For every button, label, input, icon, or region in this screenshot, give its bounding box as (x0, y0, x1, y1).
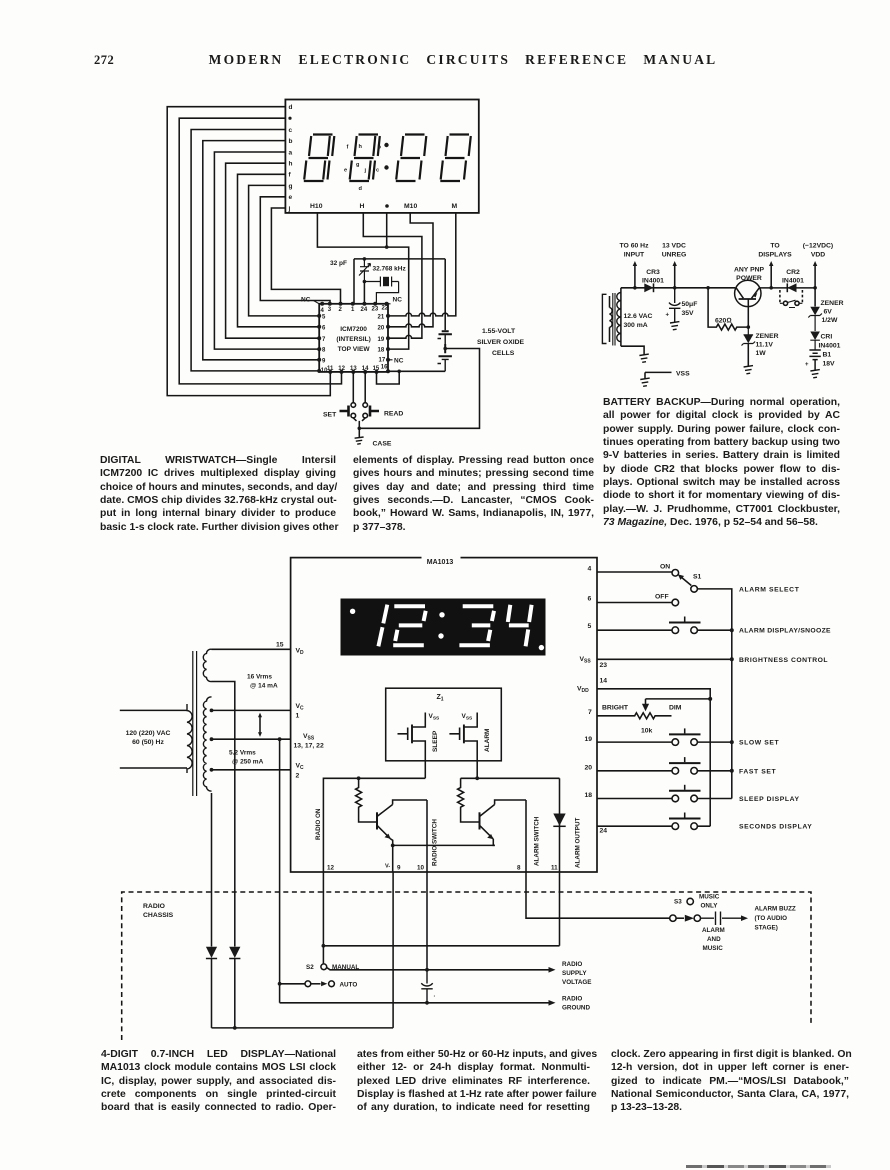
pin8 rail (525, 800, 527, 872)
svg-text:1: 1 (296, 713, 300, 720)
wire bus d (167, 107, 330, 396)
oscillator top rail to battery column (354, 259, 445, 330)
svg-text:7: 7 (588, 709, 592, 716)
svg-text:S3: S3 (674, 898, 682, 905)
trimmer capacitor 32 pF (359, 259, 371, 282)
MOSFET alarm (449, 713, 477, 761)
READ plunger (370, 406, 379, 417)
ground CASE (355, 437, 364, 444)
svg-text:NC: NC (301, 297, 311, 304)
svg-text:c: c (289, 127, 293, 134)
svg-text:11.1V: 11.1V (756, 342, 774, 349)
svg-text:b: b (289, 138, 293, 145)
transistor Q2 (480, 800, 527, 845)
page number (94, 53, 114, 68)
svg-text:DIM: DIM (669, 705, 682, 712)
TEXT BLOCK: digital wristwatch col 2 (353, 454, 594, 534)
pin 6 / off (597, 602, 672, 604)
wire battery mid to read loop (360, 349, 480, 429)
IC pin dots bottom (328, 370, 378, 374)
svg-text:@ 14 mA: @ 14 mA (250, 683, 278, 690)
svg-text:16 Vrms: 16 Vrms (247, 674, 272, 681)
colon (439, 612, 444, 617)
svg-text:DISPLAYS: DISPLAYS (758, 252, 792, 259)
svg-text:ON: ON (660, 564, 670, 571)
Z1 box (386, 688, 502, 761)
decimal dot on display bottom row (385, 204, 389, 208)
wire bus dot(.) (179, 118, 341, 384)
pin 14 VDD (597, 689, 710, 826)
junction trimmer bottom (363, 280, 367, 284)
pin 11 / pin 12 tie line (323, 872, 559, 946)
svg-text:h: h (359, 144, 363, 150)
svg-text:INPUT: INPUT (624, 252, 645, 259)
svg-text:IN4001: IN4001 (782, 278, 804, 285)
svg-text:20: 20 (585, 764, 593, 771)
svg-text:TO: TO (770, 243, 779, 250)
module MA1013 outline (291, 558, 597, 872)
svg-text:8: 8 (322, 348, 326, 354)
digit 2 (393, 606, 426, 645)
IC ICM7200 outline (319, 304, 388, 372)
diode CR2 IN4001 (787, 283, 796, 292)
svg-text:300 mA: 300 mA (624, 322, 648, 329)
svg-text:(INTERSIL): (INTERSIL) (336, 336, 370, 343)
battery cell B1 (438, 331, 452, 344)
ground VSS (640, 378, 649, 386)
svg-text:OFF: OFF (655, 594, 669, 601)
transformer T1 (602, 288, 621, 346)
main rail (621, 287, 735, 289)
wire bus c (191, 130, 319, 371)
wire M10 to pin 20 (hops) (388, 213, 433, 327)
resistor R1 (356, 778, 362, 813)
display segment-bus labels d . c b a h f g e j (288, 104, 293, 212)
digit 4 (508, 605, 532, 647)
svg-text:RADIO: RADIO (562, 996, 582, 1003)
radio supply voltage line (327, 968, 549, 970)
svg-text:a: a (289, 149, 293, 156)
svg-text:h: h (289, 161, 293, 168)
battery cell B2 (438, 344, 452, 371)
switch common wires (353, 418, 365, 428)
VSS rail down to chassis (279, 739, 281, 1003)
capacitor 50uF 35V (669, 288, 680, 322)
IC pin dots left (317, 314, 321, 373)
svg-text:20: 20 (378, 326, 385, 332)
svg-text:8: 8 (517, 865, 521, 872)
labels SET READ CASE (323, 411, 403, 448)
wire pin14 to READ contact (364, 372, 366, 403)
svg-text:POWER: POWER (736, 275, 762, 282)
colon dots (384, 143, 388, 170)
svg-text:RADIO ON: RADIO ON (315, 808, 322, 840)
svg-text:M10: M10 (404, 203, 417, 210)
svg-text:S1: S1 (693, 574, 702, 581)
page title (18, 52, 890, 68)
svg-text:AUTO: AUTO (340, 982, 358, 989)
bottom-right scan artifact bar (686, 1165, 831, 1169)
wire colon to H10 junction (386, 213, 388, 247)
svg-text:2: 2 (296, 773, 300, 780)
wire M to pin 21 (hops) (388, 213, 456, 316)
wire trimmer to pin 24 (363, 282, 365, 304)
svg-text:NC: NC (393, 297, 403, 304)
resistor 620 ohm (708, 288, 748, 330)
diode CR3 IN4001 (644, 283, 653, 292)
svg-text:(−12VDC): (−12VDC) (803, 243, 833, 250)
svg-text:READ: READ (384, 411, 403, 418)
svg-text:120 (220) VAC: 120 (220) VAC (126, 730, 171, 737)
resistor R2 (458, 778, 464, 813)
ground transformer (639, 354, 648, 362)
zener 6V 1/2W (814, 288, 816, 307)
label 5.2 Vrms (229, 750, 264, 766)
svg-text:V-: V- (385, 864, 390, 870)
svg-text:11: 11 (327, 366, 334, 372)
svg-text:+: + (805, 362, 809, 368)
svg-text:VC: VC (296, 703, 305, 712)
svg-text:VDD: VDD (811, 252, 825, 259)
label 16 Vrms (247, 674, 278, 690)
wire VC1 (212, 709, 291, 711)
crystal 32.768 kHz (364, 277, 398, 304)
arrow TO DISPLAYS (770, 264, 772, 288)
label 1.55-VOLT SILVER OXIDE CELLS (477, 328, 525, 357)
svg-text:VOLTAGE: VOLTAGE (562, 979, 592, 986)
svg-text:ZENER: ZENER (756, 333, 779, 340)
svg-text:32.768 kHz: 32.768 kHz (373, 265, 407, 272)
svg-text:13 VDC: 13 VDC (662, 243, 686, 250)
svg-text:23: 23 (600, 662, 608, 669)
svg-text:B1: B1 (823, 352, 832, 359)
svg-text:22: 22 (382, 306, 389, 312)
pin 5 / alarm display-snooze pushbutton (597, 629, 732, 631)
svg-text:CRI: CRI (821, 334, 833, 341)
svg-text:ALARM BUZZ: ALARM BUZZ (755, 906, 796, 913)
SET plunger (340, 406, 349, 417)
svg-text:(TO AUDIO: (TO AUDIO (755, 915, 788, 922)
diode D1 (206, 947, 217, 958)
svg-text:g: g (356, 162, 360, 168)
svg-text:12: 12 (338, 366, 345, 372)
svg-text:18V: 18V (823, 361, 836, 368)
svg-text:@ 250 mA: @ 250 mA (232, 759, 264, 766)
svg-text:10k: 10k (641, 728, 653, 735)
IC pin dots right (386, 314, 390, 373)
emitter junction (391, 844, 395, 848)
junction at case (358, 427, 362, 431)
svg-text:STAGE): STAGE) (755, 925, 778, 932)
svg-text:M: M (452, 203, 458, 210)
wire bus e (260, 197, 330, 304)
svg-text:.: . (434, 993, 436, 999)
svg-text:11: 11 (551, 865, 558, 872)
svg-text:RADIO: RADIO (562, 961, 582, 968)
pin 24 / seconds display (597, 825, 710, 827)
junction trimmer top (363, 257, 367, 261)
svg-text:d: d (359, 186, 363, 192)
collector rail to CR2 (759, 287, 815, 289)
svg-text:+: + (666, 313, 670, 319)
transformer core (193, 651, 197, 796)
svg-text:21: 21 (378, 315, 385, 321)
module bottom pin numbers (327, 864, 558, 872)
svg-text:NC: NC (394, 358, 404, 365)
wire bus j (271, 208, 340, 304)
junction TO DISPLAYS (769, 286, 773, 290)
junction between cells (443, 347, 447, 351)
junction 60Hz (633, 286, 637, 290)
secondary 5.2V winding (203, 697, 211, 791)
ground below cap (670, 322, 679, 330)
transformer bottom lead to ground (621, 346, 644, 354)
wire to case ground (358, 428, 360, 437)
svg-text:d: d (289, 104, 293, 111)
digit H10 (304, 135, 335, 182)
svg-text:MUSIC: MUSIC (699, 894, 720, 901)
wire H10 to pin 18 (317, 213, 408, 349)
label 120 VAC (126, 730, 171, 746)
svg-text:CELLS: CELLS (492, 350, 515, 357)
junction pin15 tie (397, 370, 401, 374)
switch contacts SET/READ (351, 403, 368, 418)
transistor Q1 (377, 800, 427, 845)
svg-text:15: 15 (276, 642, 284, 649)
radio-on node wire (323, 761, 425, 872)
svg-text:VD: VD (296, 648, 305, 657)
svg-text:9: 9 (397, 865, 401, 872)
svg-text:VSS: VSS (676, 371, 690, 378)
svg-text:e: e (289, 194, 293, 201)
module name MA1013 (422, 552, 461, 563)
svg-text:VSS: VSS (580, 656, 592, 665)
svg-text:620Ω: 620Ω (715, 318, 732, 325)
battery B1 18V (809, 350, 820, 370)
junction base branch (706, 286, 710, 290)
S3 music only switch (670, 915, 676, 921)
secondary bottom rail down (211, 793, 213, 947)
digit M10 (396, 135, 427, 182)
arrow 13 VDC UNREG (674, 264, 676, 288)
digit H (349, 135, 380, 182)
svg-text:CASE: CASE (373, 441, 392, 448)
PM dot (350, 609, 355, 614)
optional switch (dashed) across CR2 (780, 290, 803, 303)
transistor Q1 ANY PNP POWER (735, 280, 761, 327)
VSS stub (645, 372, 672, 378)
svg-text:13, 17, 22: 13, 17, 22 (294, 743, 324, 750)
svg-text:12: 12 (327, 865, 335, 872)
MOSFET sleep (398, 713, 426, 761)
svg-text:CR2: CR2 (786, 269, 800, 276)
svg-text:10: 10 (417, 865, 425, 872)
svg-text:AND: AND (707, 936, 721, 943)
wire VD pin 15 (212, 648, 291, 650)
svg-text:6: 6 (322, 326, 326, 332)
svg-text:9: 9 (322, 358, 326, 364)
IC pin dots top (320, 302, 388, 306)
svg-text:ZENER: ZENER (821, 300, 844, 307)
emitter bus (393, 845, 495, 872)
svg-text:60 (50) Hz: 60 (50) Hz (132, 739, 164, 746)
wire 16V tap down (212, 682, 235, 947)
svg-text:Z1: Z1 (436, 694, 443, 703)
svg-text:14: 14 (600, 678, 608, 685)
svg-text:RADIO: RADIO (143, 903, 165, 910)
svg-text:TOP VIEW: TOP VIEW (338, 346, 371, 353)
svg-text:SLEEP: SLEEP (432, 730, 439, 752)
pin 20 / fast set (597, 770, 732, 772)
wire pin15 loop (377, 371, 400, 384)
svg-text:SET: SET (323, 412, 337, 419)
pin 19 / slow set (597, 741, 732, 743)
radio chassis dashed box (122, 892, 811, 1040)
svg-text:6V: 6V (824, 309, 833, 316)
svg-text:24: 24 (600, 828, 608, 835)
svg-text:j: j (364, 168, 367, 174)
SVG1: wristwatch schematic (150, 90, 545, 455)
svg-text:VSS: VSS (462, 713, 474, 722)
ground below battery (810, 370, 819, 378)
svg-text:S2: S2 (306, 964, 314, 971)
TEXT BLOCK: battery backup (603, 396, 840, 529)
svg-text:H10: H10 (310, 203, 323, 210)
NC labels (301, 297, 404, 365)
svg-text:ALARM OUTPUT: ALARM OUTPUT (575, 817, 582, 868)
switch S1 lever (681, 577, 692, 586)
svg-text:BRIGHTNESS CONTROL: BRIGHTNESS CONTROL (739, 657, 828, 664)
wire bus a (214, 152, 319, 349)
svg-text:ICM7200: ICM7200 (340, 326, 367, 333)
diode D2 (229, 947, 240, 958)
svg-text:j: j (288, 205, 291, 212)
svg-text:16: 16 (381, 364, 388, 370)
wire H to pin 19 (hop over 408.7) (363, 213, 422, 338)
S2 manual contact (322, 946, 324, 964)
svg-text:5: 5 (588, 623, 592, 630)
display module outline (285, 100, 478, 213)
svg-text:ALARM: ALARM (702, 927, 725, 934)
junction VDD (813, 286, 817, 290)
pin 18 / sleep display (597, 798, 732, 800)
coupling capacitor (701, 912, 742, 926)
svg-text:b: b (378, 145, 382, 151)
display digit labels H10 H . M10 M (310, 203, 458, 210)
primary winding (187, 704, 192, 773)
TEXT BLOCK: bottom col 2 (357, 1048, 590, 1115)
svg-text:15: 15 (373, 366, 380, 372)
rotated labels in module (315, 808, 582, 868)
svg-text:RADIO SWITCH: RADIO SWITCH (432, 819, 439, 866)
svg-text:50μF: 50μF (682, 301, 698, 308)
TEXT BLOCK: digital wristwatch col 1 (100, 454, 336, 534)
svg-text:VSS: VSS (429, 713, 441, 722)
svg-text:SUPPLY: SUPPLY (562, 970, 587, 977)
svg-text:VSS: VSS (303, 733, 315, 742)
svg-text:32 pF: 32 pF (330, 260, 347, 267)
diode CR1 IN4001 (810, 332, 820, 341)
junction colon/H10 (385, 245, 389, 249)
wire battery bottom to pin 16 (388, 370, 445, 372)
auto contacts (305, 981, 311, 987)
label 12.6 VAC 300 mA (624, 313, 653, 329)
svg-text:BRIGHT: BRIGHT (602, 705, 629, 712)
svg-text:ONLY: ONLY (701, 903, 719, 910)
svg-text:18: 18 (378, 348, 385, 354)
digit 1 (378, 605, 387, 647)
svg-text:c: c (376, 168, 379, 174)
svg-text:ALARM DISPLAY/SNOOZE: ALARM DISPLAY/SNOOZE (739, 628, 831, 635)
svg-text:UNREG: UNREG (662, 252, 687, 259)
wire bus g (249, 185, 320, 316)
wire to Q2 base (461, 814, 480, 823)
pin 7 / brightness pot (597, 713, 672, 719)
svg-text:5: 5 (322, 315, 326, 321)
wire VC2 (212, 769, 291, 771)
digit M (440, 135, 471, 182)
svg-text:SLOW SET: SLOW SET (739, 740, 780, 747)
junction 13VDC (673, 286, 677, 290)
svg-text:19: 19 (585, 736, 593, 743)
TEXT BLOCK: bottom col 1 (101, 1048, 336, 1115)
svg-text:1W: 1W (756, 350, 767, 357)
svg-text:IN4001: IN4001 (642, 278, 664, 285)
svg-text:14: 14 (362, 366, 369, 372)
alarm output diode (559, 778, 561, 872)
svg-text:1/2W: 1/2W (822, 317, 838, 324)
IC pin numbers (321, 306, 389, 375)
wire to Q1 base (359, 814, 377, 823)
svg-text:12.6 VAC: 12.6 VAC (624, 313, 653, 320)
svg-text:23: 23 (372, 307, 379, 313)
arrow TO 60 Hz INPUT (634, 264, 636, 288)
TEXT BLOCK: bottom col 3 (611, 1048, 849, 1115)
SVG3: MA1013 clock module schematic (110, 550, 870, 1050)
svg-text:4: 4 (321, 308, 325, 314)
svg-text:1.55-VOLT: 1.55-VOLT (482, 328, 516, 335)
svg-text:5.2 Vrms: 5.2 Vrms (229, 750, 256, 757)
IC name (336, 326, 370, 353)
svg-text:6: 6 (588, 596, 592, 603)
measurement arrow between VC1 and VSS (259, 717, 261, 734)
svg-text:SECONDS DISPLAY: SECONDS DISPLAY (739, 824, 812, 831)
svg-text:MUSIC: MUSIC (703, 945, 724, 952)
zener 11.1V 1W (742, 327, 756, 345)
svg-text:VC: VC (296, 763, 305, 772)
secondary 16V winding (203, 649, 211, 681)
svg-text:24: 24 (361, 307, 368, 313)
wire bus h (226, 163, 320, 338)
svg-text:ANY PNP: ANY PNP (734, 267, 765, 274)
radio ground line (280, 1002, 549, 1004)
svg-text:CR3: CR3 (646, 269, 660, 276)
svg-text:VDD: VDD (577, 686, 589, 695)
digit-2 internal segment letters (344, 144, 382, 192)
svg-text:f: f (347, 145, 349, 151)
svg-text:SLEEP DISPLAY: SLEEP DISPLAY (739, 796, 800, 803)
wire VSS (212, 738, 291, 740)
svg-text:MA1013: MA1013 (427, 559, 454, 566)
svg-text:f: f (289, 172, 292, 179)
svg-text:7: 7 (322, 337, 326, 343)
alarm node wire (461, 761, 560, 779)
wire bus b (203, 141, 319, 360)
svg-text:TO 60 Hz: TO 60 Hz (620, 243, 650, 250)
svg-text:e: e (344, 168, 347, 174)
wire pin13 to SET contact (352, 372, 354, 403)
digit 3 (459, 606, 494, 645)
